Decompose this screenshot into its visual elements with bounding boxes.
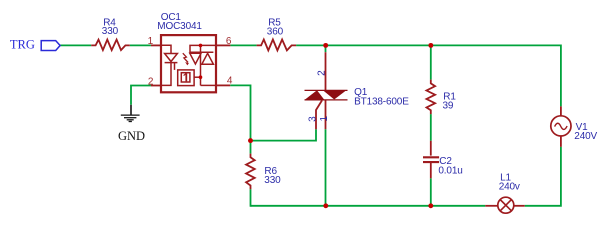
svg-text:360: 360 [267, 26, 284, 37]
svg-text:240v: 240v [499, 182, 520, 193]
svg-text:6: 6 [226, 36, 232, 47]
svg-text:GND: GND [118, 129, 145, 143]
svg-text:1: 1 [148, 36, 154, 47]
svg-text:TRG: TRG [10, 38, 35, 52]
svg-text:240V: 240V [574, 131, 597, 142]
svg-text:39: 39 [443, 101, 454, 112]
svg-text:0.01u: 0.01u [438, 165, 462, 176]
svg-text:330: 330 [102, 26, 119, 37]
svg-text:3: 3 [307, 116, 318, 122]
svg-text:2: 2 [317, 70, 328, 76]
svg-text:1: 1 [319, 116, 330, 122]
svg-text:2: 2 [148, 76, 154, 87]
svg-text:BT138-600E: BT138-600E [354, 97, 409, 108]
svg-text:MOC3041: MOC3041 [157, 21, 202, 32]
svg-text:4: 4 [227, 75, 233, 86]
svg-text:330: 330 [264, 175, 281, 186]
